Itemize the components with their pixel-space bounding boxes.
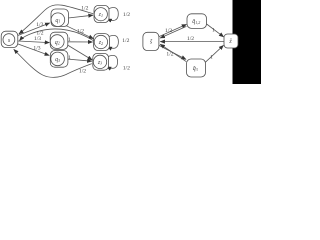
wire s-hat to q-hat12 [159, 24, 186, 36]
wire s to q2 [18, 41, 49, 43]
svg-text:1/2: 1/2 [187, 36, 194, 42]
wire q3 to z3 [65, 59, 92, 61]
node q-hat-1,2 [187, 14, 207, 29]
svg-text:q̂1,2: q̂1,2 [192, 19, 200, 26]
wire arc z1 to s (top arc) [19, 5, 93, 34]
node z3 [93, 53, 109, 70]
svg-text:1: 1 [68, 55, 71, 61]
svg-text:q̂3: q̂3 [193, 66, 198, 72]
svg-text:1: 1 [210, 55, 213, 61]
wire s to q3 [17, 44, 50, 56]
edge probability labels [33, 6, 215, 75]
svg-text:1/3: 1/3 [36, 22, 43, 28]
wire s-hat to q-hat3 [159, 45, 186, 59]
black rectangle (top right redaction) [233, 0, 262, 84]
wire arc z3 to s (bottom arc) [14, 49, 92, 77]
svg-text:q1: q1 [55, 18, 60, 24]
node s-hat [143, 32, 159, 50]
svg-text:1: 1 [212, 27, 215, 33]
wire q-hat3 to s-hat (return) [160, 44, 186, 61]
wire q2 to z3 [65, 43, 92, 60]
wire z2 to s (gentle return) [20, 29, 94, 41]
svg-text:1/2: 1/2 [122, 38, 129, 44]
wire q2 to z2 [65, 41, 93, 43]
node s (double: rounded square + circle) [1, 31, 18, 47]
self-loop on z1 [107, 8, 118, 21]
wire z-hat to s-hat [160, 41, 224, 43]
wire q-hat12 to z-hat [207, 24, 224, 37]
wire q-hat3 to z-hat [205, 45, 223, 62]
node q3 [50, 51, 68, 68]
node labels [8, 12, 233, 72]
svg-text:1/2: 1/2 [166, 52, 173, 58]
node q-hat-3 [187, 59, 206, 77]
svg-text:1/2: 1/2 [77, 29, 84, 35]
svg-text:q3: q3 [55, 57, 60, 63]
svg-text:1: 1 [68, 37, 71, 43]
svg-text:1/2: 1/2 [79, 69, 86, 75]
svg-text:q2: q2 [55, 40, 60, 46]
node q1 [51, 9, 69, 27]
svg-text:1/2: 1/2 [123, 12, 130, 18]
svg-text:z2: z2 [98, 40, 103, 46]
wire s to q1 [17, 23, 50, 36]
svg-text:1/2: 1/2 [165, 28, 172, 34]
self-loop on z3 [106, 55, 117, 68]
wire q1 to z1 [65, 15, 93, 18]
node q2 [50, 32, 68, 49]
wire q-hat12 to s-hat (return) [160, 26, 186, 38]
node z1 [94, 5, 109, 22]
svg-text:z3: z3 [97, 60, 102, 66]
svg-text:z1: z1 [98, 12, 103, 18]
svg-text:1/2: 1/2 [81, 6, 88, 12]
svg-text:1/2: 1/2 [123, 66, 130, 72]
self-loop on z2 [107, 35, 118, 48]
node z2 [94, 34, 110, 51]
svg-text:1/3: 1/3 [33, 46, 40, 52]
svg-text:1/3: 1/3 [34, 36, 41, 42]
wire q1 to z2 [63, 24, 93, 38]
node z-hat [224, 34, 238, 48]
